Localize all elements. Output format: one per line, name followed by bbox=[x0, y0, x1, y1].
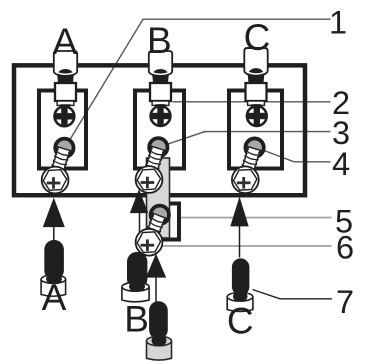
wire hole A bbox=[55, 139, 73, 157]
mounting plate (gray) below terminal B bbox=[147, 158, 170, 238]
crosshead screw C bbox=[246, 104, 267, 126]
crosshead screw A bbox=[54, 105, 75, 127]
terminal screw A bbox=[42, 147, 71, 194]
svg-text:A: A bbox=[53, 21, 78, 62]
svg-text:1: 1 bbox=[329, 4, 347, 40]
arrow C bbox=[230, 197, 248, 227]
svg-text:C: C bbox=[227, 301, 254, 342]
crosshead screw B bbox=[150, 104, 171, 126]
arrow A tail bbox=[53, 226, 55, 241]
svg-text:B: B bbox=[147, 20, 172, 61]
arrow B2 tail bbox=[155, 277, 157, 302]
terminal window C bbox=[229, 91, 282, 169]
housing box (terminal block body) bbox=[14, 65, 305, 195]
terminal window A border bbox=[39, 91, 86, 169]
ferrule A bbox=[41, 279, 66, 296]
plate screw (hex head with cross) bbox=[136, 213, 166, 255]
svg-text:7: 7 bbox=[336, 284, 354, 320]
terminal window B border bbox=[135, 91, 184, 169]
svg-text:6: 6 bbox=[336, 229, 354, 265]
ferrule C bbox=[227, 297, 253, 312]
callout line 4 bbox=[264, 151, 331, 162]
svg-text:A: A bbox=[42, 277, 67, 318]
housing box border (over callout lines) bbox=[14, 65, 305, 195]
svg-text:C: C bbox=[244, 17, 271, 58]
plug pin C bbox=[232, 258, 250, 295]
callout line 2 bbox=[173, 101, 331, 103]
ferrule B bbox=[122, 287, 149, 302]
svg-text:B: B bbox=[124, 298, 149, 339]
callout line 3 horizontal bbox=[203, 131, 331, 133]
cable gland C bbox=[244, 48, 267, 89]
plug pin A bbox=[44, 240, 64, 280]
spare plug pin bbox=[149, 301, 168, 339]
cable gland B bbox=[149, 51, 172, 108]
callout line 7 bbox=[253, 290, 333, 299]
terminal window C border bbox=[229, 91, 282, 169]
svg-text:4: 4 bbox=[332, 146, 350, 182]
wire hole B bbox=[149, 138, 167, 156]
terminal screw C bbox=[232, 147, 261, 194]
callout line 6 bbox=[162, 245, 332, 247]
callout line 3 diagonal bbox=[168, 132, 205, 144]
spare ferrule (gray) bbox=[147, 341, 172, 360]
arrow B2 (spare plug arrow) bbox=[146, 254, 166, 278]
mounting bracket below terminal B bbox=[154, 204, 179, 240]
arrow B tail bbox=[139, 213, 141, 249]
callout line 1 bbox=[70, 19, 331, 139]
cable gland A bbox=[54, 51, 77, 108]
arrow B bbox=[130, 189, 148, 213]
plug pin B bbox=[127, 252, 147, 289]
arrow A bbox=[43, 198, 65, 228]
terminal screw B bbox=[136, 146, 165, 193]
terminal window B bbox=[135, 91, 184, 169]
terminal window A bbox=[39, 91, 86, 169]
arrow C tail bbox=[239, 226, 241, 258]
plate hole bbox=[151, 206, 169, 224]
callout line 5 bbox=[168, 217, 332, 219]
wire hole C bbox=[245, 138, 263, 156]
